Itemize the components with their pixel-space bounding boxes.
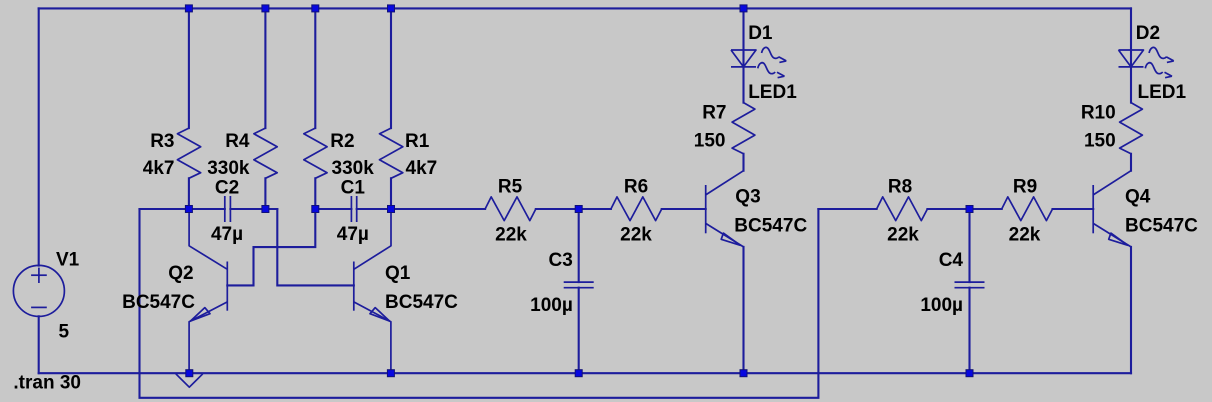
wire bottom ground rail <box>39 372 1131 374</box>
svg-text:LED1: LED1 <box>1138 82 1187 103</box>
wire R8 right to R9 left (through C4 node) <box>927 208 1001 210</box>
node top R1 <box>388 5 395 12</box>
wire R2 top lead <box>314 8 316 128</box>
LED D1 <box>731 47 786 77</box>
node top R2 <box>312 5 319 12</box>
resistor R1 <box>380 128 403 178</box>
svg-text:47µ: 47µ <box>337 224 369 245</box>
wire R3 bottom lead <box>188 178 190 209</box>
wire R4 top lead <box>264 8 266 128</box>
node C3 bottom <box>575 370 582 377</box>
svg-text:R5: R5 <box>498 176 523 197</box>
svg-text:LED1: LED1 <box>748 82 797 103</box>
transistor Q1 <box>354 209 391 373</box>
wire left rail (V+ to V1 top) <box>38 8 40 265</box>
wire C1 right to R5 left <box>357 208 485 210</box>
svg-text:150: 150 <box>694 131 726 152</box>
resistor R5 <box>485 197 536 221</box>
svg-text:Q1: Q1 <box>385 263 411 284</box>
wire C2 right to wire-B corner <box>230 208 277 210</box>
wire D2 top lead <box>1130 8 1132 67</box>
svg-text:R3: R3 <box>150 131 174 152</box>
svg-text:R2: R2 <box>330 131 354 152</box>
wire R9 right to Q4 base <box>1053 208 1094 210</box>
wire C4 top lead <box>968 209 970 282</box>
svg-text:5: 5 <box>59 322 70 343</box>
svg-text:Q2: Q2 <box>168 263 193 284</box>
wire D1 top lead <box>742 8 744 67</box>
svg-text:R7: R7 <box>702 103 726 124</box>
wire top rail <box>39 7 1131 9</box>
svg-text:22k: 22k <box>495 224 527 245</box>
resistor R4 <box>254 128 277 178</box>
node Q1 collector <box>388 206 395 213</box>
resistor R2 <box>304 128 327 178</box>
capacitor C3 <box>564 282 594 288</box>
resistor R6 <box>611 197 662 221</box>
node top R4 <box>262 5 269 12</box>
svg-text:V1: V1 <box>56 249 80 270</box>
wire R7 to Q3 collector <box>742 154 744 171</box>
node ground junction <box>186 370 193 377</box>
svg-text:100µ: 100µ <box>920 295 963 316</box>
wire cross-couple A: Q2 base up to node R2 <box>227 209 315 285</box>
svg-text:BC547C: BC547C <box>122 292 195 313</box>
svg-text:BC547C: BC547C <box>385 292 458 313</box>
svg-text:C1: C1 <box>341 178 366 199</box>
svg-text:BC547C: BC547C <box>734 215 807 236</box>
node R4/C2 <box>262 206 269 213</box>
svg-text:R1: R1 <box>405 131 430 152</box>
svg-text:Q3: Q3 <box>735 186 760 207</box>
resistor R9 <box>1002 197 1053 221</box>
wire Q4 emitter to ground rail <box>1130 247 1132 373</box>
svg-text:R8: R8 <box>888 176 912 197</box>
svg-text:150: 150 <box>1084 131 1116 152</box>
wire C4 bottom lead <box>968 288 970 374</box>
wire C3 top lead <box>578 209 580 282</box>
resistor R10 <box>1120 103 1143 154</box>
wire D2 cathode to R10 <box>1130 67 1132 103</box>
node Q2 collector <box>185 206 192 213</box>
node Q1 emitter ground <box>387 370 394 377</box>
transistor Q3 <box>706 171 744 247</box>
svg-text:D2: D2 <box>1136 23 1160 44</box>
resistor R3 <box>177 128 200 178</box>
svg-text:C3: C3 <box>549 250 573 271</box>
wire R5 right to R6 left (through C3 node) <box>536 208 611 210</box>
wire Q3 emitter to ground rail <box>742 247 744 373</box>
LED D2 <box>1119 47 1174 77</box>
node top R3 <box>185 5 192 12</box>
wire R10 to Q4 collector <box>1130 154 1132 171</box>
svg-text:47µ: 47µ <box>211 224 243 245</box>
svg-text:22k: 22k <box>620 224 652 245</box>
svg-text:R10: R10 <box>1081 103 1116 124</box>
wire R3 top lead <box>188 8 190 128</box>
wire R6 right to Q3 base <box>662 208 706 210</box>
voltage source V1 <box>13 265 64 316</box>
svg-text:330k: 330k <box>207 158 250 179</box>
wire R4 bottom lead <box>264 178 266 209</box>
svg-text:22k: 22k <box>887 224 919 245</box>
svg-text:100µ: 100µ <box>530 295 573 316</box>
wire R2 bottom lead <box>314 178 316 209</box>
wire R1 bottom lead <box>390 178 392 209</box>
svg-text:D1: D1 <box>748 23 773 44</box>
node Q3 emitter ground <box>740 370 747 377</box>
wire R1 top lead <box>390 8 392 128</box>
svg-text:BC547C: BC547C <box>1125 215 1198 236</box>
svg-text:.tran 30: .tran 30 <box>13 373 81 394</box>
node top D1 <box>740 5 747 12</box>
svg-text:R9: R9 <box>1013 176 1037 197</box>
node C4 top <box>966 206 973 213</box>
wire D1 cathode to R7 <box>742 67 744 103</box>
node R2/C1 <box>312 206 319 213</box>
svg-text:R4: R4 <box>225 131 250 152</box>
capacitor C4 <box>955 282 985 288</box>
wire V1 bottom to ground rail <box>38 316 40 373</box>
wire feedback loop left: node Q2 collector down and right to R8 <box>140 209 819 398</box>
node C4 bottom <box>966 370 973 377</box>
capacitor C1 <box>351 196 356 222</box>
capacitor C2 <box>225 196 231 222</box>
transistor Q4 <box>1093 171 1131 247</box>
resistor R8 <box>877 197 928 221</box>
wire cross-couple B: node R4 down to Q1 base <box>277 209 354 285</box>
wire node R2 to C1 left <box>315 208 351 210</box>
resistor R7 <box>732 103 755 154</box>
node C3 top <box>575 206 582 213</box>
transistor Q2 (mirrored npn) <box>189 209 227 373</box>
wire node row: left stub to C2 <box>140 208 225 210</box>
svg-text:Q4: Q4 <box>1125 186 1151 207</box>
ground <box>176 374 203 387</box>
svg-text:4k7: 4k7 <box>143 158 175 179</box>
svg-text:330k: 330k <box>332 158 375 179</box>
svg-text:C2: C2 <box>215 178 239 199</box>
wire R8 left lead <box>818 208 876 210</box>
svg-text:22k: 22k <box>1009 224 1041 245</box>
svg-text:4k7: 4k7 <box>406 158 438 179</box>
svg-text:R6: R6 <box>624 176 648 197</box>
svg-text:C4: C4 <box>939 250 964 271</box>
wire C3 bottom lead <box>578 288 580 374</box>
